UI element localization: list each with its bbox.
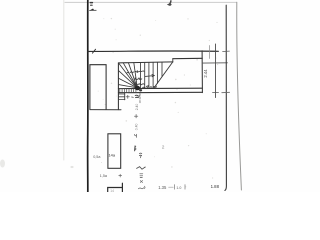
svg-text:1,5а: 1,5а (100, 174, 108, 178)
plus mark below hatch (126, 95, 133, 98)
svg-text:14: 14 (110, 189, 114, 192)
winder fan: line to top 2 (128, 63, 137, 88)
approx mark (139, 153, 141, 158)
dim tick right y=51 (223, 50, 230, 52)
wall line y=63 (right of stairwell) (202, 62, 227, 64)
handwritten hook mark top center (169, 1, 171, 5)
corridor room top-left (90, 65, 106, 110)
svg-text:0,5a: 0,5a (93, 155, 101, 159)
plus tick (134, 115, 137, 118)
landing top wall y=58.5 (173, 57, 203, 59)
winder fan: line to corner (119, 63, 138, 88)
riser 6 (161, 62, 163, 76)
paper left edge (63, 0, 65, 160)
tick below wall x=124.6 (124, 93, 126, 100)
svg-text:1.88: 1.88 (211, 184, 220, 189)
svg-text:2: 2 (162, 144, 165, 150)
equals marks (140, 174, 143, 178)
winder fan: line to top 3 (134, 63, 138, 88)
arrow annotation (145, 74, 154, 76)
entry steps below stair (118, 94, 125, 100)
riser 5 (156, 62, 158, 83)
scan noise specks (98, 18, 219, 188)
paper top edge (65, 1, 237, 3)
winder fan: line to left edge 2 (119, 78, 138, 88)
stair top edge (118, 62, 172, 63)
winder fan: line to left edge 3 (119, 85, 138, 88)
last riser jog (172, 59, 174, 62)
x mark (140, 181, 142, 183)
newel blob (135, 86, 140, 91)
dashes below newel (139, 93, 141, 104)
plus mark (119, 174, 122, 177)
stair bottom edge lower (118, 91, 202, 93)
vert dim chain: top dark mark (135, 95, 139, 97)
squiggle $ (134, 146, 136, 151)
paper background (0, 0, 320, 192)
dim tick right y=92.5 (222, 91, 230, 93)
dim tick x=210.5 (208, 46, 210, 59)
svg-text:2.40: 2.40 (135, 104, 139, 111)
pier rect 2 (108, 134, 121, 169)
flight break diagonal (154, 62, 173, 89)
breakline zigzag (137, 167, 146, 170)
inner line x=215.5 (215, 44, 217, 98)
riser 2 (144, 62, 146, 88)
svg-text:0.40: 0.40 (135, 123, 139, 130)
dim tick x=94 (92, 49, 95, 53)
riser 1 (140, 63, 142, 89)
svg-text:14а: 14а (109, 153, 116, 158)
section arrow left (89, 9, 94, 11)
handwriting row 2 (stair) (134, 78, 142, 80)
section arrow tail (90, 9, 97, 11)
winder fan: line to top 1 (123, 63, 137, 88)
dim text 1.0 with ticks (175, 185, 185, 190)
left wall (87, 0, 89, 192)
wall hatch under stair (120, 89, 136, 93)
svg-text:1.0: 1.0 (176, 186, 181, 190)
wall line y=51 (88, 50, 219, 53)
dim line mid (169, 186, 174, 188)
dim text 2.40 (top left, rotated) (90, 2, 94, 6)
smudge near wall (70, 166, 73, 168)
squiggle above 1.35 (138, 186, 145, 189)
handwriting row 4 (steps note) (143, 86, 157, 89)
smudge left margin (0, 160, 5, 168)
svg-text:1.35: 1.35 (158, 185, 167, 190)
stair left edge (117, 63, 119, 110)
riser 3 (148, 62, 150, 88)
small mark ч (135, 134, 137, 137)
stairwell right wall x=202 (201, 51, 203, 93)
tick crossing x215 at y92.5 (213, 91, 219, 93)
right wall inner line (225, 5, 227, 190)
pier rect 3 (cut) (108, 183, 123, 192)
winder fan: line to left edge 1 (119, 71, 138, 88)
riser 4 (152, 62, 154, 88)
svg-text:2.44: 2.44 (203, 69, 208, 78)
handwriting row 3 (stair) (134, 83, 144, 85)
handwriting row 1 (stair) (127, 71, 144, 74)
corridor bottom wall (90, 109, 121, 111)
blob 2 (139, 89, 142, 91)
stair bottom edge upper (118, 87, 202, 89)
right wall outer line (237, 2, 242, 190)
